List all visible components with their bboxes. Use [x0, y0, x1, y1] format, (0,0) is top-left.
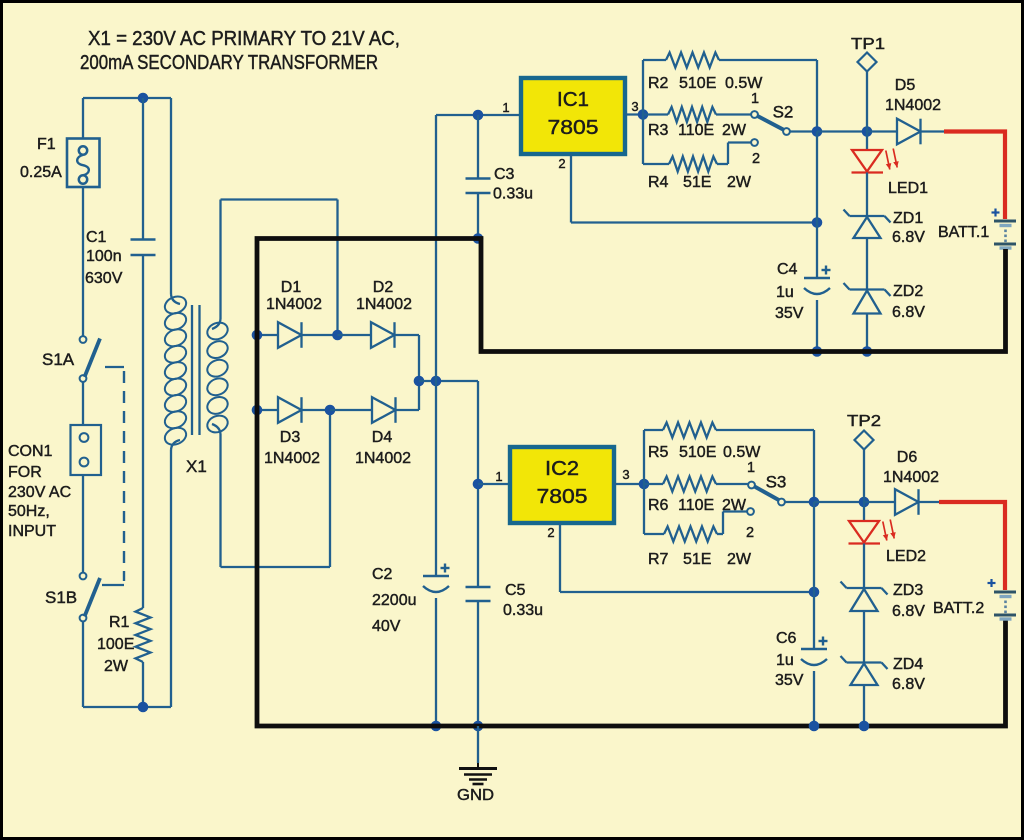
wire R5 right lead: [716, 430, 814, 502]
switch S2 blade: [758, 116, 786, 131]
label D1 1N4002: [266, 296, 322, 313]
label C2 40V: [372, 618, 401, 635]
zener ZD1: [844, 210, 891, 290]
node D1-D2 junction: [332, 330, 343, 341]
svg-text:7805: 7805: [548, 117, 599, 139]
wire red to BATT.1: [944, 132, 1005, 220]
label C4: [777, 261, 798, 278]
resistor R2: [666, 53, 719, 68]
label C3 0.33u: [493, 186, 533, 203]
wire fuse top: [82, 98, 84, 139]
wire R7 left lead: [644, 533, 664, 535]
switch S3 contact 2: [747, 508, 754, 515]
label D6: [897, 449, 918, 466]
label C5: [505, 582, 526, 599]
label R4 row: [648, 174, 752, 191]
wire D3 anode: [258, 409, 278, 411]
switch S2 contact 2: [751, 139, 758, 146]
wire DC positive rail: [419, 380, 478, 382]
pin 3 label IC1: [631, 99, 638, 114]
svg-text:1N4002: 1N4002: [885, 97, 941, 114]
capacitor C3: [466, 115, 491, 239]
svg-text:3: 3: [622, 467, 629, 482]
transformer X1 primary winding: [162, 293, 188, 447]
svg-text:35V: 35V: [775, 672, 804, 689]
svg-text:1: 1: [495, 469, 502, 484]
wire resistor bank vertical IC1: [642, 60, 644, 164]
label CON1 text block: [8, 443, 71, 540]
svg-text:CON1: CON1: [8, 443, 53, 460]
svg-text:D5: D5: [895, 77, 916, 94]
label ZD2 6.8V: [892, 304, 925, 321]
label D5 1N4002: [885, 97, 941, 114]
label 100n: [86, 248, 122, 265]
label F1: [37, 136, 56, 153]
svg-text:230V AC: 230V AC: [8, 484, 71, 501]
svg-text:0.33u: 0.33u: [493, 186, 533, 203]
svg-text:2: 2: [752, 151, 760, 167]
svg-text:S2: S2: [773, 103, 794, 122]
svg-text:D6: D6: [897, 449, 918, 466]
test point TP2: [855, 431, 874, 503]
wire IC2 pin 3: [614, 483, 644, 485]
label S2 1: [751, 91, 759, 107]
svg-text:R4: R4: [648, 174, 669, 191]
wire resistor bank vertical IC2: [643, 430, 645, 534]
svg-text:C2: C2: [372, 566, 393, 583]
svg-text:D4: D4: [372, 429, 393, 446]
op-amp IC2 box: [510, 447, 614, 523]
wire R4 left lead: [643, 163, 669, 165]
label IC1 7805: [548, 117, 599, 139]
svg-text:1u: 1u: [776, 652, 794, 669]
pin 3 label IC2: [622, 467, 629, 482]
svg-text:1N4002: 1N4002: [266, 296, 322, 313]
svg-text:LED2: LED2: [886, 548, 926, 565]
label D4: [372, 429, 393, 446]
label IC2 7805: [537, 486, 588, 508]
svg-text:ZD4: ZD4: [893, 656, 923, 673]
label C2 2200u: [372, 592, 417, 609]
svg-text:1: 1: [751, 91, 759, 107]
diode D3: [278, 397, 302, 423]
transformer X1 core: [192, 305, 200, 435]
svg-text:0.5W: 0.5W: [725, 75, 763, 92]
svg-text:1N4002: 1N4002: [355, 450, 411, 467]
svg-text:1N4002: 1N4002: [264, 450, 320, 467]
wire D4 cathode: [395, 381, 419, 410]
label C6 35V: [775, 672, 804, 689]
node IC2 pin2 meets C6 column: [809, 587, 820, 598]
wire R5 left lead: [644, 429, 663, 431]
node D3-D4 junction: [325, 405, 336, 416]
label IC1: [557, 89, 589, 111]
svg-text:F1: F1: [37, 136, 56, 153]
resistor R5: [663, 423, 716, 438]
label D5: [895, 77, 916, 94]
svg-text:6.8V: 6.8V: [892, 304, 925, 321]
diode D2: [371, 322, 395, 348]
svg-text:6.8V: 6.8V: [892, 229, 925, 246]
label R3 row: [648, 122, 747, 139]
wire S2 pole out: [790, 130, 817, 132]
diode D6: [864, 489, 939, 515]
svg-text:IC2: IC2: [545, 458, 579, 480]
node C5 on ground bus: [473, 721, 484, 732]
transformer X1 secondary winding: [205, 320, 230, 436]
label LED2: [886, 548, 926, 565]
switch S1A: [80, 336, 100, 382]
svg-text:D3: D3: [280, 429, 301, 446]
svg-text:2200u: 2200u: [372, 592, 417, 609]
label S1A: [42, 350, 75, 369]
label TP2: [847, 413, 881, 430]
svg-text:IC1: IC1: [557, 89, 589, 111]
label ZD3 6.8V: [892, 603, 925, 620]
svg-text:LED1: LED1: [888, 180, 928, 197]
node C2 on ground bus: [431, 721, 442, 732]
label C5 0.33u: [503, 602, 543, 619]
resistor R1: [136, 608, 151, 707]
label R1: [109, 614, 130, 631]
label D1: [281, 279, 302, 296]
label ZD4 6.8V: [892, 676, 925, 693]
label S3 1: [747, 460, 755, 476]
diode D1: [278, 322, 302, 348]
svg-text:BATT.1: BATT.1: [938, 224, 989, 241]
label S2 2: [752, 151, 760, 167]
capacitor C2: [423, 381, 450, 726]
node IC1 pin 3: [638, 109, 649, 120]
resistor R4: [669, 157, 717, 172]
node D1 anode on bus: [252, 330, 263, 341]
label IC2: [545, 458, 579, 480]
wire D4 anode: [330, 409, 372, 411]
op-amp IC1 box: [521, 78, 625, 154]
node D3 anode on bus: [252, 405, 263, 416]
wire D2 anode: [338, 334, 372, 336]
label R7 row: [648, 551, 752, 568]
svg-text:R2: R2: [648, 75, 669, 92]
wire S3 pole out: [785, 501, 814, 503]
label 0.25A: [20, 164, 62, 181]
node charger2 output: [859, 497, 870, 508]
capacitor C5: [466, 587, 491, 726]
svg-text:630V: 630V: [85, 270, 123, 287]
wire IC2 input rail: [477, 381, 479, 587]
svg-text:BATT.2: BATT.2: [933, 600, 984, 617]
svg-text:R7: R7: [648, 551, 669, 568]
svg-text:S3: S3: [766, 473, 787, 492]
svg-text:100n: 100n: [86, 248, 122, 265]
switch S1B: [80, 573, 100, 622]
svg-text:35V: 35V: [775, 305, 804, 322]
svg-text:200mA SECONDARY TRANSFORMER: 200mA SECONDARY TRANSFORMER: [80, 52, 378, 74]
resistor R6: [663, 477, 716, 492]
svg-text:S1B: S1B: [45, 588, 77, 607]
wire D1 cathode: [301, 334, 338, 336]
test point TP1: [858, 53, 877, 132]
label C2: [372, 566, 393, 583]
svg-text:1u: 1u: [776, 284, 794, 301]
label S3 2: [746, 525, 754, 541]
label C4 35V: [775, 305, 804, 322]
wire bottom left horizontal: [83, 706, 171, 708]
svg-text:TP2: TP2: [847, 413, 881, 430]
svg-text:50Hz,: 50Hz,: [8, 503, 50, 520]
label R5 row: [648, 444, 761, 461]
svg-text:40V: 40V: [372, 618, 401, 635]
svg-text:2W: 2W: [727, 551, 752, 568]
label D2 1N4002: [356, 296, 412, 313]
node charger1 output: [862, 126, 873, 137]
label C6: [776, 630, 797, 647]
label D4 1N4002: [355, 450, 411, 467]
switch S3 pole: [778, 499, 785, 506]
zener ZD3: [841, 582, 888, 663]
node C3 tap: [473, 110, 484, 121]
label 2W: [104, 658, 129, 675]
transformer X1 secondary lead top: [212, 200, 221, 330]
wire S1B to bottom: [82, 621, 84, 707]
transformer X1 secondary lead bottom: [212, 424, 221, 567]
svg-text:1: 1: [502, 100, 509, 115]
svg-text:3: 3: [631, 99, 638, 114]
label D3 1N4002: [264, 450, 320, 467]
svg-text:0.33u: 0.33u: [503, 602, 543, 619]
svg-text:2: 2: [558, 156, 565, 171]
diode D4: [372, 397, 396, 423]
label C1: [86, 229, 107, 246]
zener ZD2: [844, 283, 891, 352]
LED2: [849, 502, 896, 588]
label D6 1N4002: [883, 469, 939, 486]
label 630V: [85, 270, 123, 287]
node C5 tap: [473, 479, 484, 490]
svg-text:1: 1: [747, 460, 755, 476]
svg-text:C6: C6: [776, 630, 797, 647]
node IC1 pin2 meets C4 column: [812, 217, 823, 228]
label C3: [494, 166, 515, 183]
svg-text:ZD3: ZD3: [893, 582, 923, 599]
svg-text:C5: C5: [505, 582, 526, 599]
wire IC1 pin 2: [571, 154, 817, 223]
label R2 row: [648, 75, 763, 92]
svg-text:51E: 51E: [683, 551, 711, 568]
label R6 row: [648, 497, 747, 514]
battery BATT.1: [994, 221, 1016, 248]
ground: [459, 763, 497, 784]
svg-text:R5: R5: [648, 444, 669, 461]
svg-text:51E: 51E: [683, 174, 711, 191]
label ZD1 6.8V: [892, 229, 925, 246]
svg-text:ZD2: ZD2: [893, 283, 923, 300]
svg-text:C3: C3: [494, 166, 515, 183]
switch S2 pole: [783, 128, 790, 135]
wire CON1 to S1B: [82, 475, 84, 573]
pin 1 label IC2: [495, 469, 502, 484]
label C4 1u: [776, 284, 794, 301]
svg-text:ZD1: ZD1: [893, 210, 923, 227]
svg-text:D2: D2: [373, 279, 394, 296]
svg-text:510E: 510E: [679, 444, 716, 461]
battery BATT.1 plus: [992, 209, 1000, 217]
wire S3 node to LED column: [814, 501, 864, 503]
label 100E: [97, 636, 134, 653]
wire R2 right lead: [719, 60, 817, 132]
node S3 output: [809, 497, 820, 508]
resistor R3: [668, 107, 716, 122]
svg-text:INPUT: INPUT: [8, 523, 56, 540]
label TP1: [851, 36, 885, 53]
wire D2 cathode: [394, 335, 419, 381]
svg-text:R1: R1: [109, 614, 130, 631]
svg-text:6.8V: 6.8V: [892, 676, 925, 693]
wire GND stem: [477, 726, 479, 763]
svg-text:2: 2: [746, 525, 754, 541]
LED1: [852, 132, 899, 217]
svg-text:R3: R3: [648, 122, 669, 139]
svg-text:D1: D1: [281, 279, 302, 296]
svg-text:2W: 2W: [104, 658, 129, 675]
node DC rail to IC1: [431, 376, 442, 387]
wire IC1 pin 3: [625, 113, 643, 115]
wire R2 left lead: [643, 59, 666, 61]
label D3: [280, 429, 301, 446]
resistor R7: [664, 527, 717, 542]
switch S3 contact 1: [748, 482, 755, 489]
wire R6 left lead: [644, 483, 663, 485]
svg-text:110E: 110E: [678, 122, 714, 139]
transformer X1 primary lead top: [171, 98, 180, 304]
wire R3 left lead: [643, 113, 668, 115]
diode D5: [867, 119, 944, 145]
svg-text:C1: C1: [86, 229, 107, 246]
battery BATT.2: [994, 592, 1016, 619]
node ZD2 on ground bus: [862, 346, 873, 357]
node ZD4 on ground bus: [859, 721, 870, 732]
label ZD3: [893, 582, 923, 599]
battery BATT.2 plus: [988, 579, 996, 587]
wire S2 node to LED column: [817, 130, 867, 132]
svg-text:R6: R6: [648, 497, 669, 514]
label C6 1u: [776, 652, 794, 669]
svg-text:110E: 110E: [678, 497, 714, 514]
wire R4 right lead: [717, 143, 751, 165]
wire D3 cathode: [301, 409, 330, 411]
switch S2 contact 1: [751, 111, 758, 118]
node S2 output: [812, 126, 823, 137]
wire IC1 input rail: [436, 115, 521, 381]
capacitor C6: [801, 502, 828, 726]
wire D1 anode: [258, 334, 278, 336]
svg-text:2: 2: [547, 525, 554, 540]
label BATT.1: [938, 224, 989, 241]
node C6 on ground bus: [809, 721, 820, 732]
wire to IC2 pin 1: [478, 483, 510, 485]
label S1B: [45, 588, 77, 607]
label BATT.2: [933, 600, 984, 617]
svg-text:2W: 2W: [722, 122, 747, 139]
ground bus black: [257, 239, 1006, 727]
node mains top junction: [138, 93, 149, 104]
svg-text:6.8V: 6.8V: [892, 603, 925, 620]
title line 1: [88, 28, 400, 50]
pin 1 label IC1: [502, 100, 509, 115]
wire top mains horizontal: [83, 97, 171, 99]
label ZD2: [893, 283, 923, 300]
wire R7 right lead: [717, 512, 747, 535]
label S3: [766, 473, 787, 492]
node bridge positive junction: [414, 376, 425, 387]
svg-text:X1 = 230V AC PRIMARY TO 21V AC: X1 = 230V AC PRIMARY TO 21V AC,: [88, 28, 400, 50]
transformer X1 primary lead bottom: [171, 440, 180, 707]
node C3 on ground bus: [473, 233, 484, 244]
wire secondary bottom to bridge: [221, 410, 331, 567]
switch S3 blade: [755, 487, 781, 502]
label ZD1: [893, 210, 923, 227]
node C4 on ground bus: [812, 346, 823, 357]
label LED1: [888, 180, 928, 197]
svg-text:GND: GND: [457, 787, 494, 804]
svg-text:0.25A: 0.25A: [20, 164, 62, 181]
connector CON1: [71, 425, 102, 475]
svg-text:X1: X1: [186, 457, 207, 476]
svg-text:1N4002: 1N4002: [883, 469, 939, 486]
node IC2 pin 3: [639, 479, 650, 490]
wire fuse bottom to S1A: [82, 187, 84, 336]
svg-text:C4: C4: [777, 261, 798, 278]
label X1: [186, 457, 207, 476]
node R1 bottom junction: [138, 702, 149, 713]
wire R3 right lead: [716, 113, 751, 115]
label ZD4: [893, 656, 923, 673]
title line 2: [80, 52, 378, 74]
ganged switch link dashed: [102, 367, 124, 585]
fuse F1: [67, 139, 100, 188]
svg-text:1N4002: 1N4002: [356, 296, 412, 313]
svg-text:100E: 100E: [97, 636, 134, 653]
zener ZD4: [841, 656, 888, 726]
capacitor C1: [131, 98, 156, 608]
wire R6 right lead: [716, 483, 748, 485]
label GND: [457, 787, 494, 804]
svg-text:7805: 7805: [537, 486, 588, 508]
wire red to BATT.2: [939, 502, 1005, 590]
pin 2 label IC2: [547, 525, 554, 540]
svg-text:TP1: TP1: [851, 36, 885, 53]
wire S1A to CON1: [82, 382, 84, 425]
pin 2 label IC1: [558, 156, 565, 171]
svg-text:0.5W: 0.5W: [723, 444, 761, 461]
capacitor C4: [804, 132, 831, 352]
svg-text:S1A: S1A: [42, 350, 75, 369]
svg-text:FOR: FOR: [8, 464, 42, 481]
label D2: [373, 279, 394, 296]
label S2: [773, 103, 794, 122]
svg-text:2W: 2W: [727, 174, 752, 191]
wire secondary top to bridge: [221, 200, 338, 336]
svg-text:510E: 510E: [679, 75, 716, 92]
wire IC2 pin 2: [560, 523, 814, 592]
